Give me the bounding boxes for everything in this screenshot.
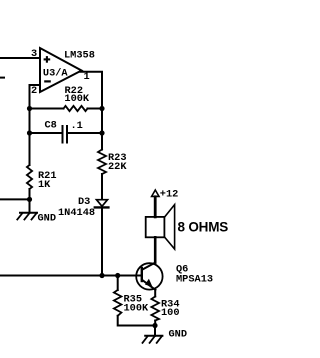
junction node: R21 bottom / ground wire (27, 197, 32, 202)
svg-text:1K: 1K (38, 179, 51, 191)
ground (left) hatch slashes (17, 213, 36, 220)
svg-text:22K: 22K (108, 161, 127, 173)
svg-text:3: 3 (31, 48, 37, 60)
capacitor C8 plates (62, 126, 64, 143)
resistor R35 top wire (117, 276, 119, 291)
transistor Q6 emitter diagonal (142, 280, 155, 290)
capacitor C8 wire right segment (68, 132, 102, 134)
svg-text:.1: .1 (71, 120, 83, 132)
wire: pin 2 to feedback node, down left rail (30, 85, 41, 165)
op-amp U3/A triangle (40, 48, 82, 92)
svg-text:C8: C8 (45, 120, 57, 132)
resistor R23 zigzag (98, 150, 106, 175)
transistor Q6 emitter arrowhead (145, 279, 153, 287)
junction node: output rail / R22 right (99, 106, 104, 111)
svg-text:1: 1 (84, 71, 90, 83)
ground (bottom) stem (154, 326, 156, 336)
ground (left) bar (20, 212, 37, 214)
resistor R22 zigzag (64, 106, 88, 111)
capacitor C8 wire left segment (30, 132, 62, 134)
junction node: diode rail / base rail (99, 273, 104, 278)
svg-text:MPSA13: MPSA13 (176, 274, 213, 286)
svg-text:100: 100 (161, 307, 180, 319)
wire: left edge to ground node (0, 198, 30, 200)
wire: collector up to speaker (154, 237, 157, 262)
wire: non-inverting input from left edge to op-amp pin 3 (0, 57, 40, 59)
ground (bottom) bar (145, 335, 162, 337)
diode D3 triangle (anode) (97, 200, 108, 207)
resistor R34 zigzag (151, 297, 159, 321)
wire: +12 arrow stem to speaker (154, 197, 157, 217)
transistor Q6 collector diagonal (142, 263, 155, 270)
junction node: pin2 rail / C8 left (27, 130, 32, 135)
svg-text:GND: GND (38, 212, 57, 224)
junction node: pin2 rail / R22 left (27, 106, 32, 111)
speaker horn (165, 205, 175, 249)
ground (bottom) hatch slashes (143, 336, 162, 343)
resistor R22 wire right segment (88, 108, 103, 110)
svg-text:1N4148: 1N4148 (58, 207, 95, 219)
svg-text:+12: +12 (160, 189, 179, 201)
svg-text:LM358: LM358 (64, 50, 95, 62)
power +12 arrow (152, 190, 159, 196)
wire: op-amp output pin 1 to right rail (81, 72, 103, 150)
svg-text:GND: GND (169, 328, 188, 340)
wire: R23 bottom to diode D3 anode (101, 174, 103, 200)
wire: R34 bottom to ground node (154, 321, 156, 326)
resistor R21 zigzag (27, 165, 32, 189)
diode D3 cathode bar (95, 206, 109, 208)
transistor Q6 circle (136, 263, 162, 289)
ground (left) stem (29, 199, 31, 212)
transistor Q6 base bar (141, 268, 143, 281)
wire: D3 cathode down to base node (101, 209, 103, 276)
svg-text:8 OHMS: 8 OHMS (178, 220, 229, 235)
junction node: output rail / C8 right (99, 130, 104, 135)
resistor R22 wire left segment (30, 108, 64, 110)
wire: emitter to R34 (154, 290, 156, 297)
svg-text:2: 2 (31, 85, 37, 97)
op-amp minus input sign (44, 80, 51, 82)
svg-text:U3/A: U3/A (43, 68, 69, 80)
wire: R35 bottom to ground rail (118, 316, 155, 326)
op-amp plus input sign (44, 56, 51, 63)
wire: R21 bottom to ground node (29, 189, 31, 199)
wire: base rail from left edge to transistor base (0, 275, 142, 277)
svg-text:100K: 100K (64, 93, 90, 105)
speaker frame square (146, 217, 165, 237)
junction node: R34 bottom / ground (152, 323, 157, 328)
node stub at left edge (0, 77, 4, 79)
resistor R35 zigzag (114, 290, 122, 316)
svg-text:100K: 100K (124, 302, 150, 314)
junction node: R35 top / base rail (115, 273, 120, 278)
